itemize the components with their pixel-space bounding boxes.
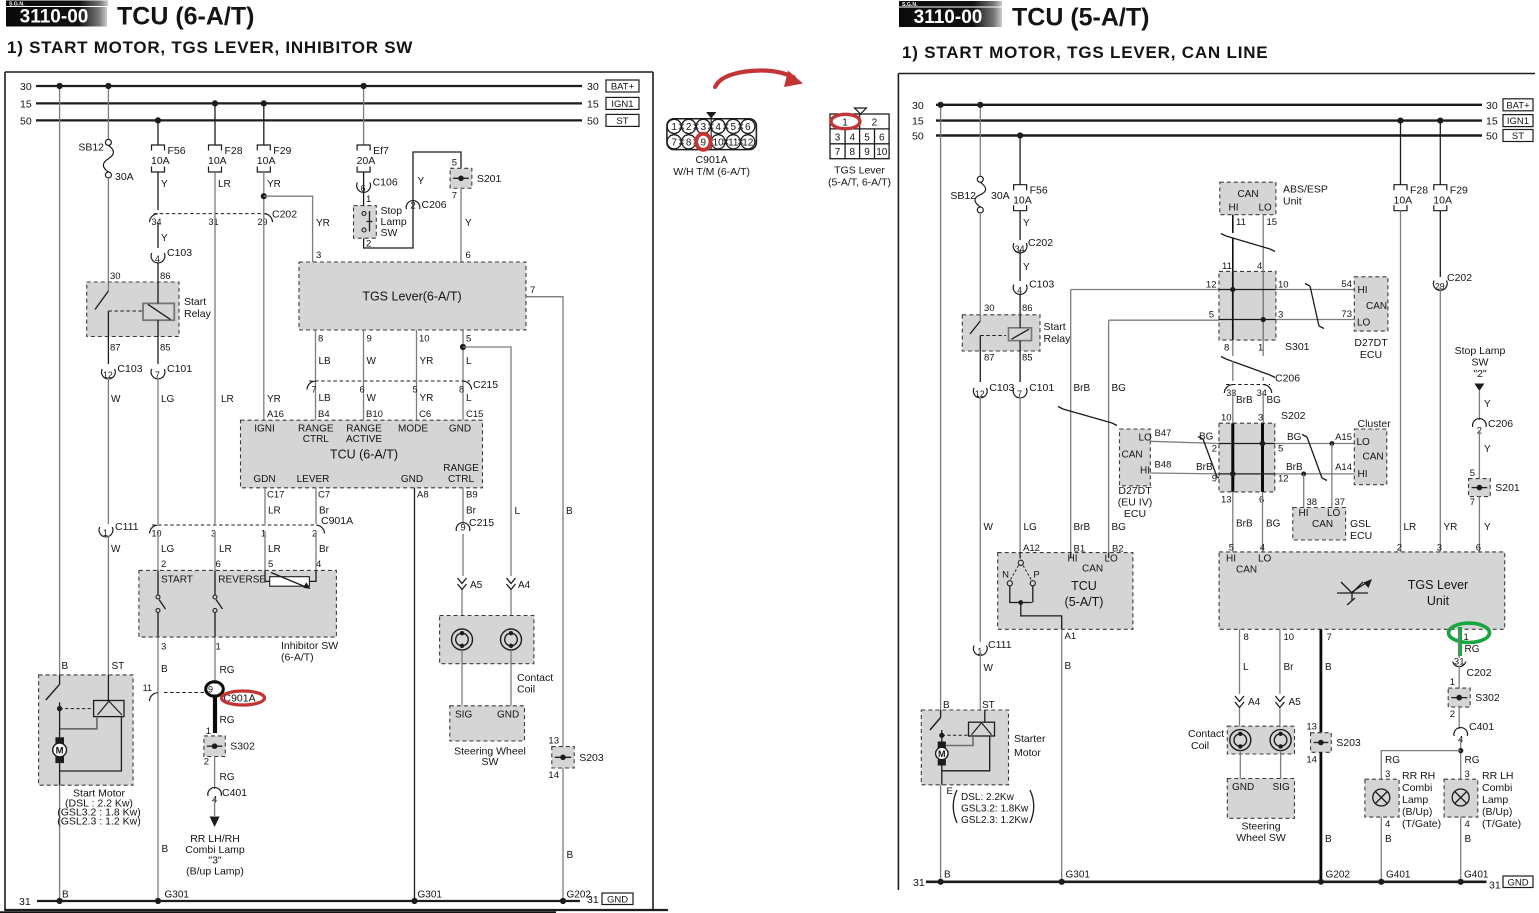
svg-text:Combi: Combi <box>1482 782 1512 794</box>
svg-text:4: 4 <box>1385 819 1390 830</box>
svg-text:A5: A5 <box>1289 697 1302 708</box>
svg-text:BAT+: BAT+ <box>1506 100 1530 111</box>
svg-text:73: 73 <box>1341 309 1352 320</box>
svg-text:CAN: CAN <box>1082 564 1103 575</box>
wire ABS LO down <box>1262 215 1264 272</box>
connector C901A pin11 <box>143 683 208 701</box>
svg-text:D27DT: D27DT <box>1354 337 1388 349</box>
svg-text:Steering: Steering <box>1241 821 1280 833</box>
svg-text:12: 12 <box>1278 474 1289 485</box>
svg-text:BrB: BrB <box>1074 522 1091 533</box>
label RG right lamp <box>1465 755 1480 780</box>
svg-text:8: 8 <box>850 147 856 158</box>
svg-text:W: W <box>111 394 121 405</box>
svg-text:C202: C202 <box>1467 667 1492 679</box>
twist B47 B48 <box>1198 437 1222 480</box>
svg-text:B: B <box>162 844 169 855</box>
wire SB12 to relay <box>107 178 109 282</box>
wire SB12 to relay right <box>979 213 981 315</box>
svg-text:1: 1 <box>216 642 221 653</box>
svg-text:B: B <box>1325 662 1332 673</box>
wire ABS HI down <box>1232 215 1234 233</box>
svg-text:3: 3 <box>1258 413 1263 424</box>
svg-text:Ef7: Ef7 <box>373 145 389 157</box>
svg-text:YR: YR <box>420 356 434 367</box>
connector C206 row right <box>1224 373 1300 399</box>
starter motor labels right <box>947 786 1034 826</box>
svg-text:5: 5 <box>1470 468 1475 479</box>
svg-text:6: 6 <box>216 559 221 570</box>
label ST <box>112 661 125 672</box>
svg-text:B: B <box>62 890 69 901</box>
svg-text:RG: RG <box>220 665 235 676</box>
svg-text:Combi: Combi <box>1402 782 1432 794</box>
stop lamp switch <box>354 205 407 250</box>
svg-text:C6: C6 <box>419 409 431 420</box>
svg-text:YR: YR <box>267 394 281 405</box>
svg-text:(6-A/T): (6-A/T) <box>281 652 314 664</box>
svg-text:CAN: CAN <box>1122 450 1143 461</box>
svg-text:85: 85 <box>160 343 171 354</box>
svg-text:BrB: BrB <box>1074 383 1091 394</box>
svg-text:HI: HI <box>1068 554 1078 565</box>
connector C111 pin1 <box>99 521 139 675</box>
wire TGS pin10 <box>417 330 434 420</box>
svg-text:IGN1: IGN1 <box>1507 116 1529 127</box>
connector C103 pin12 right <box>973 351 1014 642</box>
bus 15 right <box>912 116 1498 128</box>
svg-text:LO: LO <box>1357 318 1371 329</box>
right header S.G.N. bar <box>899 1 1002 8</box>
svg-text:5: 5 <box>1209 310 1214 321</box>
connector C401 right <box>1454 721 1494 746</box>
svg-text:1: 1 <box>1258 343 1263 354</box>
svg-text:GND: GND <box>449 424 471 435</box>
svg-text:CAN: CAN <box>1363 452 1384 463</box>
right header title <box>1012 4 1149 32</box>
svg-text:LO: LO <box>1258 554 1272 565</box>
svg-text:7: 7 <box>452 190 457 201</box>
fuse F28 <box>208 100 243 172</box>
svg-text:Y: Y <box>465 218 472 229</box>
svg-text:TGS Lever: TGS Lever <box>1408 578 1468 592</box>
svg-text:A8: A8 <box>417 490 429 501</box>
RR RH combi lamp <box>1365 770 1441 830</box>
svg-text:C901A: C901A <box>321 515 353 527</box>
svg-text:10A: 10A <box>208 155 227 167</box>
contact coil box right <box>1188 726 1295 754</box>
svg-text:C202: C202 <box>1447 272 1472 284</box>
wire A8 B <box>411 488 442 904</box>
svg-text:RANGE: RANGE <box>298 424 334 435</box>
splice S201 <box>450 157 501 201</box>
svg-text:LO: LO <box>1357 437 1371 448</box>
svg-text:87: 87 <box>984 353 995 364</box>
wire to inhibitor pins <box>158 531 316 570</box>
svg-text:Y: Y <box>1023 262 1030 273</box>
label ST right <box>982 700 995 711</box>
svg-text:1: 1 <box>671 122 677 133</box>
svg-text:GND: GND <box>497 710 519 721</box>
svg-text:15: 15 <box>1486 116 1498 128</box>
svg-text:4: 4 <box>155 254 160 264</box>
wire to S301 pin12 <box>1071 280 1219 291</box>
svg-text:SIG: SIG <box>1273 782 1290 793</box>
svg-text:13: 13 <box>1221 495 1232 506</box>
svg-text:12: 12 <box>103 370 113 380</box>
svg-text:GND: GND <box>1232 782 1254 793</box>
svg-text:7: 7 <box>835 147 841 158</box>
red annotation arrow <box>715 71 803 88</box>
wire TGS10 Br <box>1275 629 1301 708</box>
svg-text:C215: C215 <box>469 517 494 529</box>
wire YR to TGS pin3 <box>264 196 330 262</box>
svg-text:15: 15 <box>1267 217 1278 228</box>
svg-text:B: B <box>943 700 950 711</box>
wire B47 to S202 <box>1150 432 1219 455</box>
wire B9 to A5 <box>462 534 464 576</box>
svg-text:CAN: CAN <box>1237 189 1258 200</box>
svg-text:LR: LR <box>268 544 281 555</box>
connector C202 pin29 right <box>1433 272 1472 291</box>
connector C103 pin4 right <box>1013 279 1054 315</box>
svg-text:TGS Lever: TGS Lever <box>834 165 885 177</box>
BAT+ box left <box>606 80 639 93</box>
svg-text:4: 4 <box>850 132 856 143</box>
svg-text:54: 54 <box>1341 279 1352 290</box>
svg-text:B: B <box>566 506 573 517</box>
TCU 5AT box <box>998 543 1133 642</box>
wire C17 LR <box>265 488 281 524</box>
fuse F28 right <box>1394 118 1429 211</box>
svg-text:G401: G401 <box>1386 870 1411 881</box>
svg-text:B: B <box>1385 834 1392 845</box>
svg-text:11: 11 <box>1222 261 1232 272</box>
svg-text:GND: GND <box>1507 877 1528 888</box>
svg-text:W: W <box>111 544 121 555</box>
svg-text:F29: F29 <box>273 145 291 157</box>
svg-text:10: 10 <box>419 334 430 345</box>
svg-text:L: L <box>515 506 521 517</box>
svg-text:87: 87 <box>110 343 121 354</box>
svg-text:BG: BG <box>1112 383 1127 394</box>
svg-text:(T/Gate): (T/Gate) <box>1402 818 1441 830</box>
svg-text:Y: Y <box>1023 218 1030 229</box>
svg-text:CAN: CAN <box>1312 519 1333 530</box>
svg-text:5: 5 <box>1278 444 1283 455</box>
svg-text:C401: C401 <box>222 787 247 799</box>
bus 30 left <box>20 81 599 93</box>
svg-text:10A: 10A <box>151 155 170 167</box>
svg-text:G301: G301 <box>418 890 443 901</box>
svg-text:GSL2.3: 1.2Kw: GSL2.3: 1.2Kw <box>961 815 1029 826</box>
svg-text:B9: B9 <box>466 490 478 501</box>
svg-text:3: 3 <box>835 132 841 143</box>
svg-text:LO: LO <box>1327 508 1341 519</box>
svg-text:8: 8 <box>459 385 464 395</box>
svg-text:D27DT: D27DT <box>1118 485 1152 497</box>
svg-text:4: 4 <box>715 122 721 133</box>
wire S201 to TGS pin6 <box>461 188 472 262</box>
labels under C901A <box>161 544 330 570</box>
wire C202 to TGS right <box>1437 287 1458 554</box>
bus 30 right <box>912 100 1498 112</box>
svg-text:30: 30 <box>912 100 924 112</box>
svg-text:Starter: Starter <box>1014 733 1046 745</box>
svg-text:L: L <box>1243 662 1249 673</box>
svg-text:L: L <box>466 356 472 367</box>
svg-text:9: 9 <box>367 334 372 345</box>
svg-text:HI: HI <box>1140 466 1150 477</box>
cluster box <box>1354 418 1391 485</box>
svg-text:S203: S203 <box>1336 737 1361 749</box>
svg-text:B: B <box>1325 834 1332 845</box>
label W 2 <box>111 544 121 555</box>
splice S203 right <box>1306 722 1361 766</box>
contact coil box left <box>440 616 554 696</box>
svg-text:ECU: ECU <box>1124 508 1146 520</box>
svg-text:30: 30 <box>110 271 121 282</box>
svg-text:C206: C206 <box>1275 373 1300 385</box>
svg-text:50: 50 <box>587 115 599 127</box>
svg-text:REVERSE: REVERSE <box>218 575 266 586</box>
svg-text:A4: A4 <box>1248 697 1261 708</box>
svg-text:RANGE: RANGE <box>346 424 382 435</box>
svg-text:86: 86 <box>1022 303 1033 314</box>
ST box left <box>606 114 639 127</box>
svg-text:DSL: 2.2Kw: DSL: 2.2Kw <box>961 792 1015 803</box>
svg-text:CTRL: CTRL <box>448 474 475 485</box>
svg-text:G301: G301 <box>165 890 190 901</box>
connector C111 right <box>973 639 1011 710</box>
svg-text:A14: A14 <box>1335 462 1352 473</box>
svg-text:7: 7 <box>1470 497 1475 508</box>
wire S202 to cluster HI <box>1275 462 1355 476</box>
svg-text:14: 14 <box>1306 754 1317 765</box>
wire Y to C103 <box>158 223 168 248</box>
svg-text:LR: LR <box>218 179 231 190</box>
svg-text:13: 13 <box>1306 722 1317 733</box>
svg-text:LR: LR <box>219 544 232 555</box>
svg-text:10: 10 <box>876 147 888 158</box>
svg-text:MODE: MODE <box>398 424 428 435</box>
svg-text:20A: 20A <box>357 155 376 167</box>
TGS unit bottom pins <box>1244 632 1469 643</box>
connector C901A pin9 circled <box>206 682 265 705</box>
svg-text:11: 11 <box>143 683 152 693</box>
wire relay87 to C103 <box>107 337 109 365</box>
svg-text:HI: HI <box>1358 285 1368 296</box>
svg-text:B: B <box>1065 661 1072 672</box>
junction L branch <box>460 344 466 350</box>
svg-text:9: 9 <box>460 523 465 534</box>
svg-text:BrB: BrB <box>1236 395 1253 406</box>
IGN1 box left <box>606 97 639 110</box>
wire stoplamp to S201 <box>364 152 461 248</box>
svg-text:C111: C111 <box>988 639 1012 651</box>
svg-text:10: 10 <box>1284 632 1295 643</box>
left subtitle <box>7 38 413 57</box>
svg-text:Coil: Coil <box>517 684 535 696</box>
svg-text:1: 1 <box>366 194 371 205</box>
svg-text:12: 12 <box>1206 280 1217 291</box>
start motor box <box>39 675 133 785</box>
steering wheel sw box left <box>450 706 526 768</box>
svg-text:C103: C103 <box>989 382 1014 394</box>
left panel border <box>0 72 668 913</box>
ST box right <box>1503 130 1533 143</box>
wire C401 arrow <box>210 799 220 827</box>
wire C7 Br <box>316 488 330 524</box>
svg-text:C103: C103 <box>1029 279 1054 291</box>
bus 31 right <box>913 877 1501 892</box>
ABS ESP unit box <box>1220 182 1328 228</box>
svg-text:W: W <box>984 663 994 674</box>
svg-text:11: 11 <box>1236 217 1246 228</box>
svg-text:B: B <box>567 850 574 861</box>
svg-text:Y: Y <box>418 176 425 187</box>
svg-text:31: 31 <box>19 896 31 908</box>
svg-text:BrB: BrB <box>1236 519 1253 530</box>
svg-text:RR RH: RR RH <box>1402 770 1435 782</box>
connector C206 pin2 <box>406 176 447 212</box>
svg-text:2: 2 <box>204 757 209 768</box>
S202 box <box>1219 410 1306 506</box>
svg-text:Br: Br <box>1284 662 1295 673</box>
wire F28 down <box>215 172 234 524</box>
start relay right <box>962 303 1071 364</box>
svg-text:Relay: Relay <box>184 308 212 320</box>
wire to S301 pin5 <box>1109 310 1219 321</box>
svg-text:RG: RG <box>1465 755 1480 766</box>
svg-text:S301: S301 <box>1285 341 1310 353</box>
svg-text:ST: ST <box>1512 131 1524 142</box>
svg-text:38: 38 <box>1307 497 1318 508</box>
svg-text:ABS/ESP: ABS/ESP <box>1283 184 1328 196</box>
svg-text:W: W <box>367 393 377 404</box>
fusible link SB12 right <box>950 102 1009 213</box>
svg-text:ST: ST <box>982 700 995 711</box>
svg-text:1: 1 <box>103 528 108 538</box>
svg-text:8: 8 <box>1224 343 1229 354</box>
svg-text:YR: YR <box>420 393 434 404</box>
svg-text:LB: LB <box>319 393 332 404</box>
svg-text:HI: HI <box>1229 203 1239 214</box>
svg-text:30: 30 <box>20 81 32 93</box>
wire inhibitor1 RG <box>215 637 235 684</box>
svg-text:C202: C202 <box>1028 237 1053 249</box>
svg-text:6: 6 <box>1259 495 1264 506</box>
svg-text:G401: G401 <box>1464 870 1489 881</box>
svg-text:86: 86 <box>160 271 171 282</box>
svg-text:SIG: SIG <box>455 710 472 721</box>
splice S302 right <box>1448 688 1500 720</box>
svg-text:C206: C206 <box>422 199 447 211</box>
connector C101 pin7 <box>151 363 192 524</box>
svg-text:31: 31 <box>208 217 218 227</box>
A5 arrow <box>458 578 483 591</box>
S301 box <box>1219 261 1310 354</box>
svg-text:W: W <box>984 522 994 533</box>
svg-text:7: 7 <box>530 285 535 296</box>
connector TGS lever pinout <box>828 108 891 189</box>
svg-text:Br: Br <box>466 506 477 517</box>
svg-text:C215: C215 <box>473 379 498 391</box>
connector C202 pin34 right <box>1013 237 1053 254</box>
svg-text:S302: S302 <box>230 741 255 753</box>
splice S201 right <box>1469 479 1520 508</box>
wires S301 down <box>1233 340 1263 356</box>
junction YR branch <box>261 193 267 199</box>
svg-text:F56: F56 <box>168 145 186 157</box>
svg-text:Stop Lamp: Stop Lamp <box>1455 345 1506 357</box>
fuse F56 right <box>1013 132 1048 210</box>
svg-text:"2": "2" <box>1473 368 1487 380</box>
svg-text:8: 8 <box>318 334 323 345</box>
svg-text:GSL: GSL <box>1350 518 1371 530</box>
twist S301 D27DT <box>1305 284 1324 329</box>
svg-text:(T/Gate): (T/Gate) <box>1482 818 1521 830</box>
svg-text:3: 3 <box>161 642 166 653</box>
svg-text:5: 5 <box>466 334 471 345</box>
svg-text:12: 12 <box>742 137 754 148</box>
svg-text:C15: C15 <box>466 409 483 420</box>
svg-text:A12: A12 <box>1023 543 1040 554</box>
wire BG B2 <box>1109 320 1127 552</box>
svg-text:C103: C103 <box>117 363 142 375</box>
wire S201 to TGS right <box>1476 497 1491 554</box>
connector C103 pin4 <box>151 247 192 282</box>
svg-text:C103: C103 <box>167 247 192 259</box>
twist S202 cluster <box>1302 435 1327 481</box>
wire S302 RG <box>215 757 235 790</box>
svg-text:10A: 10A <box>257 155 276 167</box>
svg-text:10: 10 <box>713 137 725 148</box>
svg-text:Y: Y <box>161 233 168 244</box>
connector C215 pin9 <box>456 517 494 534</box>
svg-text:LR: LR <box>221 394 234 405</box>
start relay K1 <box>87 271 212 354</box>
connector C206 pin2 right <box>1473 418 1514 437</box>
connector C215 row <box>307 379 498 395</box>
svg-text:GND: GND <box>607 894 628 905</box>
D27DT ECU box <box>1354 277 1388 361</box>
wire to GSL HI <box>1304 474 1317 508</box>
fuse Ef7 <box>357 83 389 172</box>
wire RG branch left <box>1381 751 1460 780</box>
svg-text:IGN1: IGN1 <box>611 99 633 110</box>
svg-text:Lamp: Lamp <box>1402 794 1428 806</box>
wire S203 to ground <box>1318 752 1351 885</box>
svg-text:33: 33 <box>1226 388 1236 398</box>
svg-text:LEVER: LEVER <box>297 474 330 485</box>
svg-text:A4: A4 <box>518 580 531 591</box>
svg-text:50: 50 <box>1486 131 1498 143</box>
inhibitor switch box <box>139 570 338 663</box>
twist below S301 <box>1221 357 1275 382</box>
svg-text:C17: C17 <box>267 490 284 501</box>
svg-text:M: M <box>938 749 946 759</box>
svg-text:C101: C101 <box>167 363 192 375</box>
connector C103 pin12 <box>101 363 142 524</box>
svg-text:L: L <box>466 393 472 404</box>
svg-text:(EU IV): (EU IV) <box>1118 497 1152 509</box>
wire TGS7 to ground <box>560 768 592 904</box>
wire stoplamp2 down <box>1479 391 1491 420</box>
svg-text:6: 6 <box>361 183 366 193</box>
svg-text:Br: Br <box>319 544 330 555</box>
svg-text:YR: YR <box>316 218 330 229</box>
